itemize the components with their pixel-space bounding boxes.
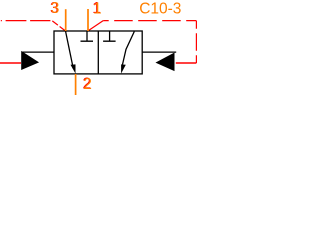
svg-text:1: 1 — [93, 0, 102, 17]
port 1 connection stub — [87, 9, 89, 31]
blocked port (right box T) — [103, 31, 116, 41]
wire: pilot line diagonal from port 1 — [88, 21, 103, 31]
left pilot actuator connection line — [22, 51, 54, 53]
right pilot triangle — [157, 53, 174, 70]
arrowhead right flow path — [121, 64, 126, 73]
svg-text:3: 3 — [51, 0, 60, 17]
valve V1 body — [54, 31, 142, 74]
wire: pilot line to right actuator — [176, 62, 197, 64]
wire: pilot line dashed top-right — [103, 20, 196, 22]
valve V1 box divider — [97, 31, 99, 74]
junction dot at port 3 — [65, 30, 67, 32]
port 3 connection stub — [65, 9, 67, 31]
arrowhead left flow path — [71, 64, 76, 73]
left pilot triangle — [22, 52, 38, 70]
wire: pilot line dashed top-left — [1, 20, 51, 22]
svg-text:C10-3: C10-3 — [139, 0, 181, 17]
port 2 connection stub — [75, 74, 77, 95]
wire: supply line to left actuator — [0, 62, 21, 64]
wire: pilot line diagonal to port 3 — [52, 21, 65, 31]
blocked port 1 (left box T) — [81, 31, 94, 41]
right pilot actuator connection line — [142, 51, 176, 53]
svg-text:2: 2 — [83, 76, 92, 93]
flow path right box: 1 to 2 — [123, 32, 135, 65]
wire: pilot line dashed right vertical — [195, 21, 197, 63]
flow path left box: 3 to 2 — [66, 32, 74, 69]
